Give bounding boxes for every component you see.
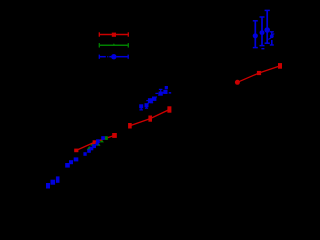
- red series line B with square markers: [128, 106, 171, 128]
- red series line A with square markers: [74, 133, 117, 152]
- legend entry blue dash-dot errorbar line: [99, 54, 128, 59]
- blue right cluster error bar 1: [253, 21, 258, 48]
- legend entry green errorbar line: [99, 43, 128, 47]
- blue series group B squares: [65, 157, 78, 167]
- legend entry red errorbar line: [99, 32, 128, 37]
- blue middle cluster dash-dot connecting line: [140, 92, 171, 108]
- blue series group C squares mixed band: [83, 136, 104, 156]
- blue right cluster error bar 4 short dash-dot: [261, 32, 274, 49]
- blue series group A squares bottom-left: [46, 176, 60, 188]
- blue middle cluster squares with error bars: [139, 86, 171, 110]
- red series line C with markers top right: [235, 63, 282, 85]
- blue right cluster error bar 3: [264, 10, 270, 43]
- green series triangle markers: [87, 139, 104, 150]
- blue right cluster error bar 2: [260, 17, 265, 46]
- green marker over red line: [105, 136, 108, 140]
